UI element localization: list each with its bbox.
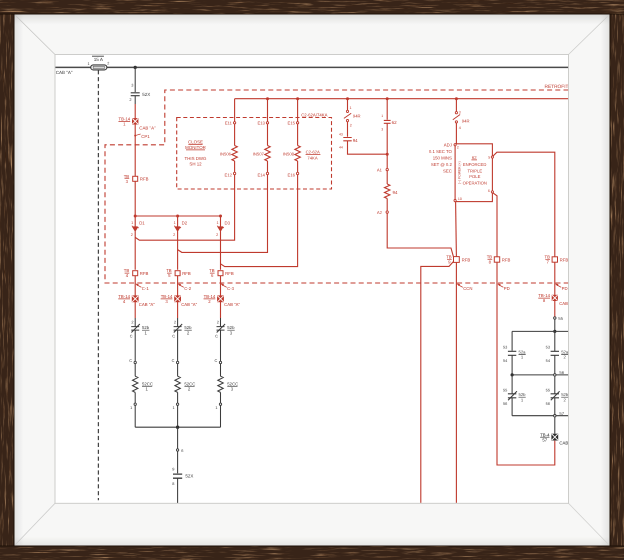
resistor 52CC/3 <box>218 376 239 392</box>
contact 52b/3 <box>215 318 235 339</box>
wire stub to TB-9 from page <box>421 261 454 503</box>
svg-text:1: 1 <box>131 221 133 225</box>
wire 52a2 col <box>554 331 556 351</box>
contact 52b/1 <box>503 388 526 406</box>
svg-text:1: 1 <box>215 405 217 410</box>
svg-text:PD: PD <box>504 286 510 291</box>
svg-text:ADJ: ADJ <box>444 143 452 148</box>
svg-text:RETROFIT: RETROFIT <box>545 84 569 90</box>
wire node 55 to rail <box>554 319 556 331</box>
svg-text:C: C <box>215 334 218 339</box>
svg-text:A1: A1 <box>377 167 383 172</box>
svg-text:C: C <box>214 358 217 363</box>
wire bus to E15 <box>297 99 299 122</box>
svg-text:2: 2 <box>129 97 131 102</box>
svg-text:CLOSE: CLOSE <box>188 140 203 145</box>
svg-text:A2: A2 <box>377 210 383 215</box>
terminal TB-8 RFB <box>487 254 511 264</box>
svg-text:E12: E12 <box>225 173 233 178</box>
svg-text:D3: D3 <box>225 221 231 226</box>
fuse 15 A <box>87 56 109 70</box>
junction top <box>134 66 137 69</box>
svg-text:52CC: 52CC <box>227 381 238 386</box>
terminal TB-6 RFB <box>209 268 234 278</box>
svg-text:C2-62A: C2-62A <box>306 150 320 155</box>
net tag C-2 <box>178 284 192 291</box>
wire timer pin 6 to TB-8 <box>493 193 497 257</box>
svg-text:94: 94 <box>353 138 358 143</box>
terminal TB-4 pin 57 <box>540 432 576 445</box>
svg-text:C-2: C-2 <box>184 286 192 291</box>
contact 52b/2 <box>172 318 192 339</box>
wire bus to E11 <box>234 99 236 122</box>
svg-text:1: 1 <box>216 221 218 225</box>
terminal TB-7 RFB <box>545 254 569 264</box>
junction 94-62 corner <box>386 153 389 156</box>
svg-text:C: C <box>129 358 132 363</box>
svg-text:1: 1 <box>350 106 352 110</box>
svg-text:52X: 52X <box>185 474 193 479</box>
wire red bus horizontal <box>235 98 569 100</box>
svg-text:RFB: RFB <box>560 258 569 263</box>
wire TB-14 2 down <box>220 302 222 318</box>
resistor 52CC/2 <box>175 376 196 392</box>
resistor IN506 <box>220 124 237 172</box>
svg-text:56: 56 <box>559 370 564 375</box>
svg-text:1: 1 <box>173 405 175 410</box>
wire coil to A1 <box>386 123 388 168</box>
contact 52a/2 <box>546 344 569 363</box>
wire A1 to resistor 94 <box>386 171 388 184</box>
wire TB-14 3 down <box>177 302 179 318</box>
svg-text:RFB: RFB <box>140 271 149 276</box>
svg-text:10: 10 <box>458 197 462 201</box>
wire rail top <box>512 330 568 332</box>
diode D1 <box>131 216 146 270</box>
terminal TB-14 pin 4 <box>118 294 155 307</box>
wire 52b/1 to node C <box>134 330 136 361</box>
wire branch D1 to E12 <box>135 175 234 240</box>
svg-text:2: 2 <box>216 233 218 237</box>
coil 62 <box>381 114 397 131</box>
capacitor 94 <box>339 133 358 150</box>
wire TB-3 to diode bus <box>134 181 136 216</box>
dashed black vertical line <box>97 70 99 500</box>
wire 94R to timer <box>455 123 457 144</box>
capacitor contact 52X top <box>129 83 150 102</box>
svg-text:94: 94 <box>393 190 398 195</box>
wire node C to resistor 52CC/2 <box>177 364 179 377</box>
wire main horizontal black bus from CAB A <box>55 66 91 68</box>
junction bus 62 <box>386 97 389 100</box>
node 6 <box>176 448 183 453</box>
junction bus E13 <box>266 97 269 100</box>
svg-text:53: 53 <box>546 344 550 349</box>
svg-text:C: C <box>130 334 133 339</box>
wire branch D3 to E16 <box>221 175 298 267</box>
terminal TB-3 RFB <box>124 174 149 184</box>
svg-text:6: 6 <box>488 189 490 193</box>
svg-text:RFB: RFB <box>502 258 511 263</box>
svg-text:3: 3 <box>131 83 133 88</box>
wire diode bus horizontal <box>135 215 220 217</box>
net tag C-3 <box>221 284 235 291</box>
wire node 1 to bottom bus <box>134 405 136 427</box>
svg-text:57: 57 <box>542 437 547 442</box>
svg-text:1: 1 <box>174 221 176 225</box>
svg-text:2: 2 <box>131 233 133 237</box>
svg-text:PD: PD <box>562 286 568 291</box>
svg-text:CAB "A": CAB "A" <box>56 70 73 75</box>
dashed retrofit enclosure <box>105 90 569 283</box>
junction diode bus 1 <box>134 215 137 218</box>
svg-text:94R: 94R <box>353 114 361 119</box>
dashed box close monitor <box>177 118 332 190</box>
svg-text:52b: 52b <box>519 392 527 397</box>
wire 52b1 to rail bottom <box>511 398 513 416</box>
node 55 <box>554 316 564 321</box>
junction bus 94R-2 <box>455 97 458 100</box>
svg-text:C: C <box>172 334 175 339</box>
wire resistor 94 to A2 <box>386 199 388 211</box>
terminal TB-5 RFB <box>166 268 191 278</box>
wire node 1 to bottom bus <box>177 405 179 427</box>
svg-text:C-3: C-3 <box>227 286 235 291</box>
wire bus to coil 62 <box>386 99 388 120</box>
svg-text:2: 2 <box>174 320 176 325</box>
svg-text:52CC: 52CC <box>184 381 195 386</box>
wire timer pin 5 to TB-7 column <box>493 152 555 257</box>
svg-text:E15: E15 <box>288 121 296 126</box>
svg-text:1: 1 <box>381 114 383 118</box>
svg-text:IN508: IN508 <box>283 151 295 156</box>
wire bottom bus horizontal <box>135 426 220 428</box>
terminal TB-4 RFB <box>124 268 149 278</box>
svg-text:C-1: C-1 <box>142 286 150 291</box>
diode D3 <box>216 216 231 270</box>
svg-text:D1: D1 <box>139 221 145 226</box>
junction diode bus 3 <box>219 215 222 218</box>
svg-text:ENFORCED: ENFORCED <box>463 162 487 167</box>
svg-text:2: 2 <box>131 320 133 325</box>
contact 52a/1 <box>503 344 526 363</box>
svg-text:THIS DWG: THIS DWG <box>185 156 208 161</box>
node A1 <box>377 167 388 172</box>
svg-text:52X: 52X <box>142 92 150 97</box>
svg-text:2: 2 <box>107 62 109 66</box>
svg-text:CAB "A": CAB "A" <box>224 302 240 307</box>
wire 52b/2 to node C <box>177 330 179 361</box>
svg-text:62: 62 <box>472 155 477 160</box>
wire resistor to node 1 <box>134 392 136 403</box>
svg-text:55: 55 <box>546 388 550 393</box>
svg-text:52b: 52b <box>561 392 569 397</box>
wire node56 drop left <box>511 375 513 394</box>
svg-text:56: 56 <box>546 401 550 406</box>
net tag CCN <box>457 284 472 291</box>
svg-text:6: 6 <box>181 448 183 453</box>
wire rail node56 <box>512 374 568 376</box>
svg-text:1: 1 <box>130 405 132 410</box>
svg-text:0.1 SEC TO: 0.1 SEC TO <box>429 149 453 154</box>
junction bus E15 <box>296 97 299 100</box>
wire bus to node 6 <box>177 427 179 449</box>
svg-text:3: 3 <box>459 110 461 114</box>
node E15 <box>288 121 299 126</box>
node C <box>214 358 221 364</box>
svg-text:94R: 94R <box>462 119 470 124</box>
net tag PD right <box>556 284 568 291</box>
svg-text:E11: E11 <box>225 121 233 126</box>
wire junction to 52X cap <box>134 67 136 92</box>
node A2 <box>377 210 388 215</box>
wire 52X to TB-14 <box>134 96 136 104</box>
contact 52b/1 <box>130 318 150 339</box>
svg-text:1: 1 <box>87 62 89 66</box>
wire bus to E13 <box>267 99 269 122</box>
svg-text:SET @ 0.2: SET @ 0.2 <box>431 162 453 167</box>
svg-text:43: 43 <box>339 133 343 137</box>
node E11 <box>225 121 236 126</box>
wire TB-14 to TB-3 with CP1 tap <box>134 124 136 176</box>
terminal TB-14 pin 8 <box>538 293 575 306</box>
terminal TB-14 pin 1 <box>118 117 156 131</box>
node 57 <box>554 411 565 417</box>
value label C2-62A 74KA <box>306 150 321 161</box>
node 56 <box>554 370 565 376</box>
svg-text:(−) POWER (+): (−) POWER (+) <box>458 161 462 184</box>
svg-text:74KA: 74KA <box>307 155 317 160</box>
svg-text:3: 3 <box>381 128 383 132</box>
wire rail left drop <box>511 331 513 350</box>
resistor 94 <box>385 184 398 199</box>
junction bottom bus <box>176 426 179 429</box>
node C <box>129 358 136 364</box>
terminal TB-9 RFB <box>446 254 470 264</box>
resistor IN508 <box>283 124 300 172</box>
wire 52b/3 to node C <box>220 330 222 361</box>
svg-text:CCN: CCN <box>463 286 472 291</box>
svg-text:55: 55 <box>558 316 563 321</box>
svg-text:52a: 52a <box>561 349 569 354</box>
wire TB-14 4 down <box>134 302 136 318</box>
note CLOSE MONITOR <box>185 140 208 167</box>
wire TB-5 to TB-14 <box>177 276 179 296</box>
wire rail bottom <box>512 415 568 417</box>
contact 52b/2 <box>546 388 569 406</box>
svg-text:CAB "A": CAB "A" <box>181 302 197 307</box>
svg-text:55: 55 <box>503 388 507 393</box>
node E13 <box>257 121 268 126</box>
svg-text:8: 8 <box>172 481 174 486</box>
diode D2 <box>173 216 188 270</box>
wire TB-7 down to TB-14 <box>554 262 556 296</box>
svg-text:RFB: RFB <box>182 271 191 276</box>
wire resistor to node 1 <box>220 392 222 403</box>
wire 52b2 to node 57 <box>554 398 556 415</box>
svg-text:IN507: IN507 <box>253 151 265 156</box>
wire node 1 to bottom bus <box>220 405 222 427</box>
node E12 <box>225 172 236 177</box>
svg-text:SEC: SEC <box>443 168 452 173</box>
junction rail top <box>553 330 556 333</box>
junction bus 94R-1 <box>346 97 349 100</box>
svg-text:53: 53 <box>503 344 507 349</box>
svg-text:52a: 52a <box>519 349 527 354</box>
svg-text:44: 44 <box>339 145 343 149</box>
svg-text:2: 2 <box>173 233 175 237</box>
svg-text:E14: E14 <box>257 173 265 178</box>
svg-text:CAB "A": CAB "A" <box>139 302 155 307</box>
terminal TB-14 pin 2 <box>204 294 241 307</box>
svg-text:E13: E13 <box>257 121 265 126</box>
wire TB-4 to TB-14 <box>134 276 136 296</box>
node C <box>172 358 179 364</box>
svg-text:RFB: RFB <box>140 177 149 182</box>
svg-text:MONITOR: MONITOR <box>185 145 206 150</box>
wire branch D2 to E14 <box>178 175 268 253</box>
wire node 57 to TB-4 <box>554 417 556 434</box>
svg-text:RFB: RFB <box>225 271 234 276</box>
wire 52a1 to node56 rail <box>511 355 513 375</box>
svg-text:57: 57 <box>559 411 564 416</box>
timer relay 62 enforced triple pole operation <box>454 144 494 202</box>
wire 52X to page bottom <box>177 478 179 503</box>
svg-text:150 MINS: 150 MINS <box>433 156 452 161</box>
contact 94R left <box>344 99 361 128</box>
svg-text:SH 12: SH 12 <box>189 162 202 167</box>
wire A2 to TB-9 <box>387 213 453 257</box>
svg-text:D2: D2 <box>182 221 188 226</box>
wire 94R to cap 94 <box>347 122 349 137</box>
svg-text:TRIPLE: TRIPLE <box>467 168 482 173</box>
node E14 <box>257 172 268 177</box>
svg-text:CP1: CP1 <box>141 134 150 139</box>
junction rail 56 left <box>510 373 513 376</box>
wire cap 94 to corner <box>348 141 388 154</box>
svg-text:4: 4 <box>459 126 461 130</box>
net tag PD left <box>498 284 510 291</box>
wire TB-14 8 to node 55 <box>554 301 556 317</box>
wire 52a2 to node 56 <box>554 355 556 373</box>
note ADJ timer setting <box>429 143 453 174</box>
svg-text:POLE: POLE <box>469 174 480 179</box>
svg-text:RFB: RFB <box>462 258 471 263</box>
wire node 6 to 52X <box>177 451 179 473</box>
resistor IN507 <box>253 124 270 172</box>
svg-text:2: 2 <box>350 123 352 127</box>
svg-text:5: 5 <box>488 155 490 159</box>
svg-text:56: 56 <box>503 401 507 406</box>
svg-text:2: 2 <box>457 146 459 150</box>
wire node C to resistor 52CC/1 <box>134 364 136 377</box>
junction diode bus 2 <box>176 215 179 218</box>
svg-text:15 A: 15 A <box>94 57 104 62</box>
net tag C-1 <box>136 284 150 291</box>
wire node C to resistor 52CC/3 <box>220 364 222 377</box>
svg-text:9: 9 <box>172 467 174 472</box>
contact 94R right <box>453 99 470 130</box>
wire resistor to node 1 <box>177 392 179 403</box>
resistor 52CC/1 <box>133 376 154 392</box>
node 1 <box>130 403 136 410</box>
wire TB-9 down CCN <box>455 262 457 503</box>
value label 15 A <box>92 55 104 57</box>
wire timer pin 10 to TB-9 <box>455 202 458 257</box>
node E16 <box>288 172 299 177</box>
svg-text:C2-62A/74KA: C2-62A/74KA <box>301 113 327 118</box>
svg-text:OPERATION: OPERATION <box>463 181 487 186</box>
svg-text:52CC: 52CC <box>142 381 153 386</box>
terminal TB-14 pin 3 <box>161 294 198 307</box>
svg-text:CAB "A": CAB "A" <box>139 126 156 131</box>
wire TB-6 to TB-14 <box>220 276 222 296</box>
svg-text:E16: E16 <box>288 173 296 178</box>
node 1 <box>215 403 221 410</box>
svg-text:62: 62 <box>392 120 398 125</box>
wire TB-8 down PD loop to TB-4 <box>497 262 555 465</box>
node CP1 <box>134 134 150 139</box>
node 1 <box>173 403 179 410</box>
capacitor contact 52X bottom <box>172 467 193 486</box>
wire node 56 to 52b2 <box>554 376 556 394</box>
svg-text:C: C <box>172 358 175 363</box>
svg-text:2: 2 <box>217 320 219 325</box>
svg-text:IN506: IN506 <box>220 151 232 156</box>
